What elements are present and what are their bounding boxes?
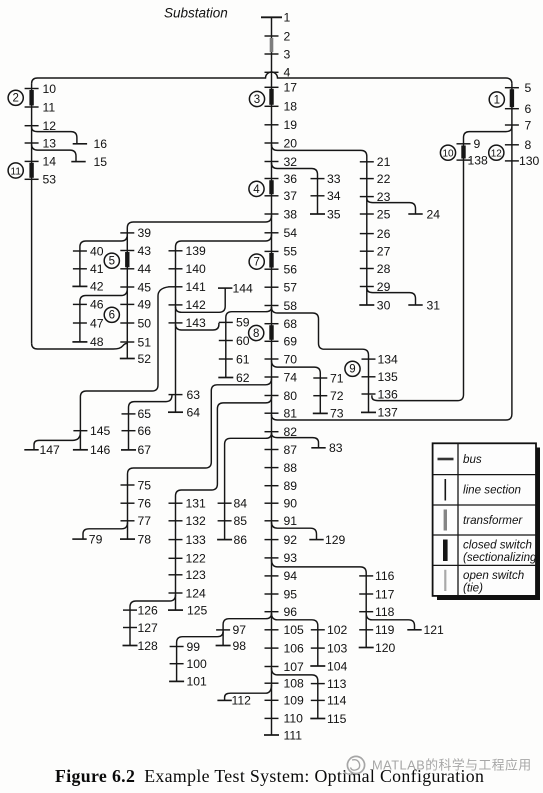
svg-text:134: 134 [378,352,399,366]
svg-text:123: 123 [186,568,207,582]
svg-text:126: 126 [138,603,159,617]
svg-text:9: 9 [349,364,355,376]
svg-text:42: 42 [90,280,104,294]
svg-text:line section: line section [463,484,521,497]
svg-text:open switch: open switch [463,569,524,582]
svg-text:57: 57 [284,281,298,295]
svg-text:4: 4 [253,184,260,196]
svg-text:142: 142 [186,298,207,312]
svg-text:36: 36 [284,172,298,186]
svg-text:3: 3 [284,47,291,61]
svg-text:127: 127 [138,621,159,635]
svg-text:25: 25 [377,207,391,221]
svg-text:6: 6 [525,102,532,116]
svg-text:16: 16 [94,137,108,151]
svg-text:69: 69 [284,335,298,349]
svg-text:63: 63 [187,388,201,402]
svg-text:66: 66 [138,424,152,438]
svg-text:33: 33 [327,172,341,186]
svg-text:11: 11 [11,166,22,177]
svg-text:23: 23 [377,190,391,204]
svg-text:21: 21 [377,155,391,169]
svg-text:43: 43 [138,244,152,258]
svg-text:(sectionalizing): (sectionalizing) [463,551,540,564]
svg-text:44: 44 [138,262,152,276]
svg-text:14: 14 [43,155,57,169]
svg-text:61: 61 [236,352,250,366]
svg-text:74: 74 [284,370,298,384]
svg-text:136: 136 [378,387,399,401]
svg-text:8: 8 [525,138,532,152]
svg-text:24: 24 [427,207,441,221]
svg-text:64: 64 [187,406,201,420]
svg-text:122: 122 [186,552,207,566]
svg-text:7: 7 [253,257,259,269]
svg-text:30: 30 [377,298,391,312]
svg-text:121: 121 [424,623,445,637]
svg-text:MATLAB的科学与工程应用: MATLAB的科学与工程应用 [372,758,532,773]
svg-text:54: 54 [284,226,298,240]
svg-text:47: 47 [90,316,104,330]
svg-text:120: 120 [375,641,396,655]
svg-text:41: 41 [90,262,104,276]
svg-text:83: 83 [329,441,343,455]
svg-text:56: 56 [284,263,298,277]
svg-text:19: 19 [284,118,298,132]
svg-text:133: 133 [186,533,207,547]
svg-text:75: 75 [138,478,152,492]
svg-text:73: 73 [330,407,344,421]
svg-text:40: 40 [90,244,104,258]
svg-text:91: 91 [284,514,298,528]
svg-text:112: 112 [232,694,252,708]
svg-text:(tie): (tie) [463,582,483,595]
svg-text:48: 48 [90,335,104,349]
svg-text:80: 80 [284,389,298,403]
svg-text:90: 90 [284,497,298,511]
svg-text:124: 124 [186,586,207,600]
svg-text:18: 18 [284,100,298,114]
svg-text:86: 86 [234,533,248,547]
svg-text:10: 10 [43,82,57,96]
svg-text:147: 147 [40,443,61,457]
svg-text:5: 5 [109,256,115,268]
svg-text:101: 101 [187,675,208,689]
svg-text:76: 76 [138,497,152,511]
svg-text:transformer: transformer [463,514,523,527]
svg-text:2: 2 [12,93,18,105]
svg-text:31: 31 [427,298,441,312]
svg-text:55: 55 [284,245,298,259]
svg-text:1: 1 [494,94,500,106]
svg-text:34: 34 [327,189,341,203]
svg-text:81: 81 [284,407,298,421]
svg-text:97: 97 [233,623,247,637]
svg-text:105: 105 [284,623,305,637]
svg-text:68: 68 [284,317,298,331]
svg-text:2: 2 [284,29,291,43]
svg-text:51: 51 [138,335,152,349]
svg-text:102: 102 [327,623,348,637]
svg-text:Substation: Substation [164,6,228,21]
svg-text:46: 46 [90,298,104,312]
svg-text:103: 103 [327,641,348,655]
svg-text:85: 85 [234,514,248,528]
svg-text:17: 17 [284,81,298,95]
svg-text:6: 6 [109,310,115,322]
svg-text:71: 71 [330,371,344,385]
svg-text:84: 84 [234,497,248,511]
svg-text:93: 93 [284,551,298,565]
svg-text:10: 10 [442,149,454,160]
svg-text:96: 96 [284,605,298,619]
svg-text:137: 137 [378,406,399,420]
svg-text:37: 37 [284,189,298,203]
svg-text:72: 72 [330,389,344,403]
svg-text:132: 132 [186,514,207,528]
svg-text:88: 88 [284,461,298,475]
svg-text:107: 107 [284,660,305,674]
svg-text:116: 116 [375,569,395,583]
svg-text:135: 135 [378,370,399,384]
svg-text:95: 95 [284,587,298,601]
svg-text:99: 99 [187,640,201,654]
svg-text:60: 60 [236,334,250,348]
svg-text:58: 58 [284,299,298,313]
svg-text:109: 109 [284,694,305,708]
svg-text:59: 59 [236,316,250,330]
svg-text:125: 125 [187,603,208,617]
svg-text:131: 131 [186,497,207,511]
svg-text:35: 35 [327,207,341,221]
svg-text:94: 94 [284,569,298,583]
svg-text:53: 53 [43,173,57,187]
svg-text:22: 22 [377,172,391,186]
svg-text:118: 118 [375,605,395,619]
svg-text:129: 129 [325,533,346,547]
svg-text:138: 138 [468,153,489,167]
svg-text:45: 45 [138,280,152,294]
svg-text:146: 146 [90,443,111,457]
svg-text:106: 106 [284,641,305,655]
svg-text:8: 8 [253,328,259,340]
svg-text:130: 130 [519,154,540,168]
svg-text:110: 110 [284,712,304,726]
svg-text:79: 79 [89,532,103,546]
svg-text:9: 9 [474,137,481,151]
svg-text:114: 114 [327,694,347,708]
svg-text:67: 67 [138,443,152,457]
svg-text:20: 20 [284,136,298,150]
svg-text:65: 65 [138,407,152,421]
svg-text:15: 15 [94,155,108,169]
svg-text:128: 128 [138,639,159,653]
svg-text:32: 32 [284,155,298,169]
svg-text:144: 144 [233,281,254,295]
svg-text:78: 78 [138,532,152,546]
svg-text:5: 5 [525,81,532,95]
svg-text:52: 52 [138,352,152,366]
svg-text:1: 1 [284,11,291,25]
svg-text:115: 115 [327,712,347,726]
svg-text:13: 13 [43,136,57,150]
svg-text:145: 145 [90,424,111,438]
svg-text:12: 12 [491,149,503,160]
svg-text:92: 92 [284,533,298,547]
svg-text:113: 113 [327,677,347,691]
svg-text:89: 89 [284,479,298,493]
svg-text:141: 141 [186,280,207,294]
svg-text:3: 3 [254,94,260,106]
svg-text:39: 39 [138,226,152,240]
svg-text:104: 104 [327,659,348,673]
svg-text:26: 26 [377,227,391,241]
svg-text:62: 62 [236,371,250,385]
svg-text:117: 117 [375,587,395,601]
svg-text:140: 140 [186,262,207,276]
svg-text:29: 29 [377,280,391,294]
svg-text:87: 87 [284,443,298,457]
svg-text:28: 28 [377,262,391,276]
svg-text:27: 27 [377,245,391,259]
svg-text:38: 38 [284,207,298,221]
svg-text:7: 7 [525,118,532,132]
svg-text:bus: bus [463,453,482,466]
svg-text:11: 11 [43,100,56,114]
svg-text:70: 70 [284,352,298,366]
svg-text:139: 139 [186,244,207,258]
svg-text:50: 50 [138,316,152,330]
svg-text:111: 111 [284,728,303,742]
svg-text:77: 77 [138,514,152,528]
svg-text:98: 98 [233,639,247,653]
svg-text:100: 100 [187,657,208,671]
svg-text:143: 143 [186,316,207,330]
svg-text:108: 108 [284,677,305,691]
svg-text:119: 119 [375,623,395,637]
svg-text:49: 49 [138,298,152,312]
svg-text:closed switch: closed switch [463,539,532,552]
